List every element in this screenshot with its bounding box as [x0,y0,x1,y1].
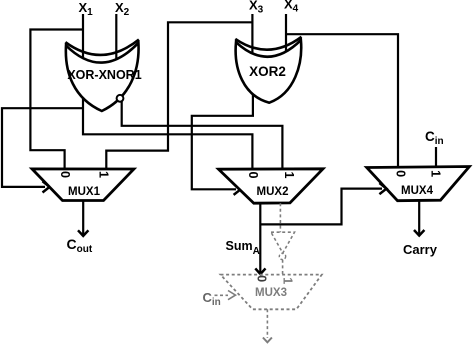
wire X1 tap to MUX1 input 0 [30,30,83,170]
wire dashed MUX2 to inverter [279,203,281,232]
wire MUX4 output [418,201,420,235]
wire dashed Cin arrow into MUX3 select [215,294,229,296]
mux MUX3 dashed [221,275,322,310]
svg-text:XOR-XNOR1: XOR-XNOR1 [67,68,141,82]
svg-text:1: 1 [281,277,295,284]
wire X3 tap to MUX1 input 1 [106,22,252,169]
XNOR bubble [117,95,124,102]
arrowhead into MUX1 select [43,181,50,192]
wire MUX2 output branch to MUX4 select [260,189,382,225]
wire XOR2 output to MUX2 select [192,92,253,189]
arrowhead dashed Cin [228,291,236,300]
svg-text:0: 0 [254,275,268,282]
svg-text:MUX4: MUX4 [401,185,434,197]
svg-text:MUX1: MUX1 [68,186,101,198]
wire dashed MUX3 output [266,309,268,338]
wire XOR output to MUX2 input 0 [83,92,252,169]
svg-text:Carry: Carry [403,242,438,257]
arrowhead MUX1 output [78,230,88,236]
svg-text:1: 1 [429,170,443,177]
gate XOR2 [235,37,301,103]
wire X2 input [115,14,117,60]
gate XOR-XNOR1 [65,40,141,112]
wire MUX2 output to MUX3 input 0 [259,203,261,273]
wire X4 input [285,14,287,52]
wire Cin to MUX4 input 1 [435,147,437,168]
svg-text:MUX3: MUX3 [255,287,287,299]
svg-text:XOR2: XOR2 [249,64,286,79]
svg-text:1: 1 [282,172,296,179]
wire XOR output branch to MUX1 select [2,108,83,187]
mux MUX1 [32,169,134,201]
mux MUX4 [367,167,470,201]
svg-text:0: 0 [58,171,72,178]
arrowhead MUX4 output [414,230,424,236]
inverter bubble dashed [279,253,285,259]
arrowhead into MUX3 input 0 [255,268,265,274]
mux MUX2 [219,169,323,203]
svg-text:MUX2: MUX2 [257,186,289,198]
svg-text:1: 1 [97,171,111,178]
inverter dashed triangle [271,232,295,253]
arrowhead into MUX2 select [234,184,241,195]
wire MUX1 output [82,201,84,235]
svg-text:0: 0 [393,170,407,177]
wire X4 tap to MUX4 input 0 [286,34,398,167]
wire XNOR bubble output to MUX2 input 1 [122,102,283,170]
svg-text:0: 0 [246,172,260,179]
wire dashed inverter to MUX3 input 1 [282,260,284,275]
wire X1 input [82,14,84,60]
arrowhead into MUX4 select [379,183,386,194]
arrowhead dashed MUX3 output [263,338,272,343]
wire X3 input [251,14,253,58]
